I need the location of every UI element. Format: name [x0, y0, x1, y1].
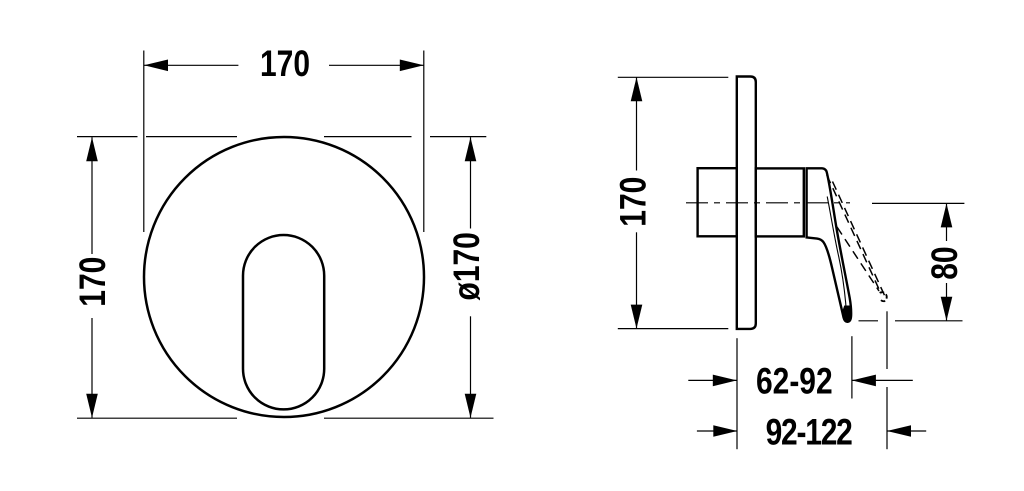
side view cover plate profile: [737, 77, 756, 329]
side view handle lever alternate position (dashed) line 2: [833, 182, 886, 298]
dimension 170 vertical left: dimension line segments: [91, 137, 93, 418]
dimension 80: bottom arrowhead: [941, 297, 953, 321]
svg-text:80: 80: [924, 246, 965, 279]
svg-text:170: 170: [72, 257, 113, 307]
svg-text:62-92: 62-92: [756, 361, 833, 402]
dimension 80: bottom extension line segments: [859, 320, 963, 322]
dimension label o170 right (rotated): [446, 232, 487, 300]
dimension 80: dimension line segments: [946, 203, 948, 320]
dimension 170 horizontal top: dimension line right segment: [329, 64, 424, 66]
svg-text:170: 170: [613, 177, 654, 227]
dimension 170 vertical left: bottom arrowhead: [86, 394, 98, 418]
side view centerline (dash-dot): [686, 202, 850, 204]
dimension label 170 top: [260, 43, 310, 84]
side view handle lever (solid position): [807, 168, 852, 322]
circle bottom tangent extension line segments: [77, 417, 494, 419]
dimension 62-92: right arrow line: [852, 379, 913, 381]
side view handle lever tip cap (filled): [843, 306, 852, 322]
dimension 80: top arrowhead: [941, 203, 953, 227]
dimension 170 side: bottom extension line: [618, 328, 729, 330]
svg-text:92-122: 92-122: [766, 412, 853, 453]
svg-text:ø170: ø170: [446, 232, 487, 300]
dimension o170 vertical right: bottom arrowhead: [465, 394, 477, 418]
dimension 170 side: dimension line segments: [636, 77, 638, 328]
dimension label 170 left (rotated): [72, 257, 113, 307]
dimension label 80 (rotated): [924, 246, 965, 279]
side view handle lever alternate position (dashed) line 3: [837, 227, 879, 291]
dimension 170 horizontal top: left extension line: [143, 51, 145, 233]
dimension 170 horizontal top: right arrowhead: [400, 60, 424, 72]
dimension 92-122: left arrowhead (pointing right): [713, 425, 737, 437]
side view handle lever inner edge line: [827, 197, 846, 314]
dimension 92-122: left arrow line: [697, 430, 737, 432]
dimension 170 horizontal top: dimension line left segment: [144, 64, 238, 66]
dimension o170 vertical right: top arrowhead: [465, 137, 477, 161]
dimension label 92-122: [766, 412, 853, 453]
dimension 170 horizontal top: right extension line: [423, 51, 425, 233]
svg-text:170: 170: [260, 43, 310, 84]
side view sleeve between plate and handle: [756, 168, 804, 236]
bottom dims: extension line from dashed lever tip: [886, 311, 888, 449]
dimension 170 horizontal top: left arrowhead: [144, 60, 168, 72]
dimension 170 side: bottom arrowhead: [631, 305, 643, 329]
bottom dims: extension line from plate face: [736, 338, 738, 449]
dimension 62-92: left arrowhead (pointing right): [713, 375, 737, 387]
side view in-wall valve body: [698, 168, 737, 236]
dimension 62-92: left arrow line: [688, 379, 737, 381]
dimension label 62-92: [756, 361, 833, 402]
dimension 170 side: top extension line: [618, 76, 729, 78]
dimension 80: top reference line (solid, on centerline): [872, 202, 964, 204]
front view handle cutout oval: [243, 235, 324, 409]
dimension 92-122: right arrow line: [887, 430, 926, 432]
dimension 170 vertical left: top arrowhead: [86, 137, 98, 161]
circle top tangent extension line segments: [77, 136, 486, 138]
dimension 170 side: top arrowhead: [631, 77, 643, 101]
side view handle lever alternate position (dashed) line 1: [827, 175, 881, 294]
side view handle lever alternate position (dashed) tip arc: [880, 292, 887, 301]
bottom dims: extension line from lever tip: [851, 336, 853, 398]
dimension 62-92: right arrowhead (pointing left): [852, 375, 876, 387]
dimension o170 vertical right: dimension line segments: [470, 137, 472, 418]
dimension 92-122: right arrowhead (pointing left): [887, 425, 911, 437]
front view cover plate circle: [144, 137, 424, 417]
dimension label 170 side (rotated): [613, 177, 654, 227]
